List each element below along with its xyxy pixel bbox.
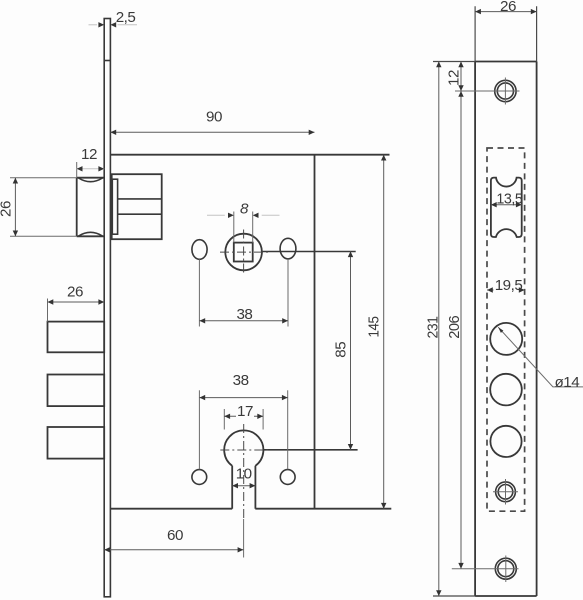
dimension 60 (104, 519, 243, 558)
dimension 12 (top screw offset) (446, 62, 464, 569)
cylinder centerline vertical (243, 424, 245, 519)
svg-text:12: 12 (446, 70, 463, 86)
svg-text:231: 231 (424, 316, 441, 338)
dimension 26 (strip width) (475, 0, 536, 15)
svg-text:17: 17 (237, 403, 253, 420)
latch guide small rect (112, 179, 117, 234)
deadbolt 3 (48, 427, 105, 459)
dimension 19,5 (487, 277, 525, 294)
dimension 26 (deadbolt throw) (48, 284, 105, 322)
cylinder centerline horizontal (220, 449, 268, 451)
LEFT VIEW (0, 9, 391, 597)
svg-text:85: 85 (333, 342, 350, 358)
svg-text:145: 145 (366, 316, 383, 337)
dimension 10 (keyway) (232, 466, 255, 489)
lock body outline (110, 155, 391, 509)
bolt hole 1 (490, 323, 522, 355)
left fixing hole (ellipse) (192, 240, 207, 260)
svg-text:ø14: ø14 (555, 374, 580, 391)
latch tail band (118, 199, 162, 214)
cylinder center extension line (264, 449, 358, 451)
extension below right ellipse (287, 259, 289, 327)
strip edge extensions (top) (475, 6, 536, 61)
spindle circle (225, 234, 262, 271)
dimension 13,5 (491, 191, 523, 208)
dimension 2,5 (89, 9, 138, 27)
RIGHT VIEW (424, 0, 583, 596)
svg-text:13,5: 13,5 (496, 191, 522, 208)
dimension 206 (446, 316, 464, 569)
svg-text:60: 60 (167, 527, 183, 544)
svg-text:26: 26 (500, 0, 516, 15)
lower left fixing hole (192, 470, 207, 485)
svg-text:12: 12 (81, 146, 97, 163)
svg-text:19,5: 19,5 (495, 277, 523, 294)
dimension 231 (424, 62, 441, 597)
deadbolt 1 (48, 322, 105, 353)
dimension 38 (upper) (199, 306, 288, 323)
latch case big rect (112, 174, 162, 239)
dimension 8 (207, 201, 280, 243)
latch bolt head (77, 178, 105, 237)
svg-text:206: 206 (446, 316, 463, 339)
dimension 12 (latch) (77, 146, 105, 178)
dimension 85 (333, 251, 354, 449)
lower right fixing hole (280, 470, 295, 485)
leader line ø14 (498, 327, 583, 391)
svg-text:26: 26 (67, 284, 83, 301)
top screw hole (455, 78, 520, 105)
dimension 90 (110, 109, 314, 136)
dimension 38 (lower) (199, 372, 287, 469)
extension below left ellipse (198, 259, 200, 326)
bottom screw hole (452, 556, 519, 583)
spindle centerlines (220, 230, 269, 275)
faceplate section tick (104, 60, 110, 62)
dashed cutout zone (487, 148, 525, 511)
dimension 26 (latch height) (0, 178, 77, 237)
svg-text:38: 38 (236, 306, 252, 323)
strip top/bottom edge extensions (left) (433, 62, 475, 597)
spindle square 8x8 (234, 243, 253, 262)
svg-text:26: 26 (0, 201, 14, 217)
right fixing hole (ellipse) (280, 238, 296, 259)
svg-text:38: 38 (233, 372, 249, 389)
bolt hole 3 (490, 426, 521, 457)
strip outline (475, 62, 536, 597)
bolt hole 2 (490, 374, 522, 406)
dimension 17 (224, 403, 263, 430)
svg-text:8: 8 (240, 201, 249, 218)
deadbolt 2 (48, 375, 105, 407)
svg-text:90: 90 (206, 109, 222, 126)
faceplate (side view, 2.5 thick) (104, 19, 110, 597)
cylinder keyhole (224, 430, 263, 508)
svg-text:2,5: 2,5 (116, 9, 136, 26)
middle screw hole (493, 479, 518, 505)
dimension 145 (366, 155, 387, 509)
hole row extension line (262, 251, 356, 253)
latch cutout (491, 178, 522, 237)
